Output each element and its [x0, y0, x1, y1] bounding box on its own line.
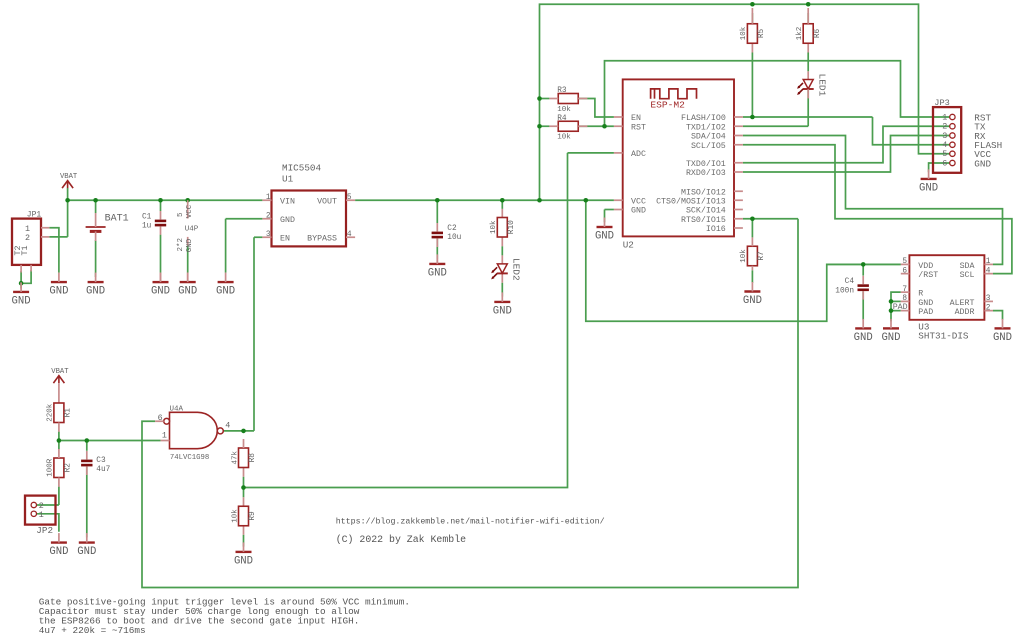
wire C1 to GND [160, 235, 162, 273]
wire top rail to R5 [751, 13, 753, 24]
svg-text:JP2: JP2 [36, 525, 53, 536]
svg-text:RTS0/IO15: RTS0/IO15 [681, 215, 726, 225]
svg-text:10k: 10k [490, 220, 498, 234]
svg-text:CTS0/MOSI/IO13: CTS0/MOSI/IO13 [656, 196, 726, 206]
wire JP3 pin6 to GND [929, 163, 950, 172]
pin R10 top [501, 209, 503, 218]
junction R5 top [750, 2, 755, 7]
pin U2 GND [614, 209, 623, 211]
pin R6 bottom [807, 43, 809, 52]
connector JP2 [25, 496, 56, 525]
pin R4 right [578, 125, 587, 127]
svg-text:C4: C4 [845, 278, 855, 286]
svg-text:FLASH/IO0: FLASH/IO0 [681, 113, 726, 123]
svg-text:TXD0/IO1: TXD0/IO1 [686, 159, 726, 169]
svg-text:GND: GND [854, 332, 873, 344]
resistor R7 [740, 246, 766, 266]
junction C1 [158, 198, 163, 203]
svg-text:C3: C3 [96, 457, 106, 465]
pin U1.2 GND [262, 218, 271, 220]
svg-text:220k: 220k [47, 403, 55, 422]
pin R8 bottom [243, 468, 245, 477]
svg-text:4u7 + 220k = ~716ms: 4u7 + 220k = ~716ms [39, 625, 146, 636]
svg-text:10k: 10k [557, 106, 571, 114]
wire net SDA U2 to U3 [743, 136, 1003, 265]
svg-text:2*2: 2*2 [177, 238, 185, 252]
svg-text:C1: C1 [142, 213, 152, 221]
svg-text:GND: GND [49, 546, 68, 558]
junction U3 pin8 [889, 299, 894, 304]
svg-text:GND: GND [280, 216, 295, 225]
wire rail to BAT1 [95, 200, 97, 213]
svg-text:U4A: U4A [170, 405, 184, 413]
svg-text:4u7: 4u7 [96, 466, 110, 474]
wire JP1 pin2 to rail riser [49, 236, 67, 238]
resistor R6 [796, 24, 822, 44]
svg-text:T1: T1 [20, 245, 30, 255]
svg-text:1: 1 [39, 510, 44, 520]
svg-text:PAD: PAD [918, 308, 933, 317]
wire R10 to LED2 [501, 246, 503, 255]
wire net VCC top loop to JP3 pin5 [540, 4, 950, 200]
junction VBAT rail / arrow [65, 198, 70, 203]
ground JP3 [919, 169, 938, 194]
svg-text:PAD: PAD [893, 303, 908, 312]
pin R6 top [807, 8, 809, 24]
svg-text:GND: GND [12, 296, 31, 308]
junction JP1 gnd pins [19, 281, 24, 286]
LED LED2 [491, 258, 522, 281]
pin C1 gnd lead [160, 273, 162, 283]
wire R4 to U2 RST [578, 125, 614, 127]
svg-text:(C) 2022 by Zak Kemble: (C) 2022 by Zak Kemble [336, 534, 466, 545]
svg-text:10k: 10k [740, 26, 748, 40]
wire C3 to GND [86, 467, 88, 538]
svg-text:SDA/IO4: SDA/IO4 [691, 132, 726, 142]
pin R5 bottom [751, 43, 753, 52]
wire U3 PAD [891, 310, 901, 312]
wire C4 to GND [862, 291, 864, 320]
ground C2 [428, 254, 447, 279]
pin U3 ADDR [984, 310, 993, 312]
junction R3 [537, 96, 542, 101]
ground C4 [854, 319, 873, 344]
svg-text:LED1: LED1 [817, 73, 828, 96]
svg-text:https://blog.zakkemble.net/mai: https://blog.zakkemble.net/mail-notifier… [336, 516, 605, 526]
pin U2 IO16 [734, 227, 743, 229]
pin C1 bottom [160, 226, 162, 234]
wire R5 to FLASH [751, 53, 753, 118]
pin U4A.1 [161, 440, 170, 442]
svg-text:ADC: ADC [631, 150, 646, 159]
junction R8/R9 ADC [241, 485, 246, 490]
pin R3 right [578, 98, 587, 100]
svg-text:2: 2 [266, 212, 271, 220]
pin JP3.5 [950, 151, 955, 156]
pin LED1 cathode [807, 89, 809, 98]
pin LED2 cathode [501, 274, 503, 283]
svg-text:R7: R7 [758, 251, 766, 261]
wire U2 GND pin [605, 209, 614, 211]
ground below JP1 [12, 282, 31, 307]
junction RTS0/R7 [750, 216, 755, 221]
pin JP3.2 [950, 124, 955, 129]
pin R7 top [751, 237, 753, 246]
svg-text:JP1: JP1 [27, 211, 42, 220]
svg-text:RST: RST [631, 123, 646, 132]
resistor R9 [231, 506, 257, 526]
pin JP3.3 [950, 133, 955, 138]
svg-text:R4: R4 [557, 115, 567, 123]
junction R6 top [806, 2, 811, 7]
wire net VCC rail [355, 199, 614, 201]
svg-text:R3: R3 [557, 87, 567, 95]
wire VDD to C4 [862, 264, 864, 275]
svg-text:R1: R1 [65, 408, 73, 418]
wire net ADC to divider [244, 153, 568, 488]
pin U4A.6 [155, 420, 164, 422]
pin U3 PAD [901, 310, 910, 312]
svg-text:R2: R2 [65, 463, 73, 473]
svg-text:1: 1 [162, 431, 167, 441]
connector JP1 [12, 219, 41, 265]
pin C4 bottom [862, 291, 864, 300]
svg-text:U2: U2 [623, 239, 634, 250]
pin C1 top [160, 211, 162, 220]
wire JP2 pin1 to GND [37, 514, 59, 532]
wire net VCC to U3 VDD [586, 200, 901, 321]
svg-text:C2: C2 [447, 225, 457, 233]
svg-text:GND: GND [919, 183, 938, 195]
wire JP1 pin1 to pin2 join [49, 228, 59, 237]
junction C2 [435, 198, 440, 203]
pin U3 SDA [984, 263, 993, 265]
ground C3 [77, 533, 96, 558]
wire R8 bottom to junction [243, 477, 245, 488]
ground JP2 [49, 533, 68, 558]
pin R5 top [751, 8, 753, 24]
wire U4A output [223, 430, 254, 432]
svg-text:6: 6 [942, 158, 947, 168]
wire R2 to JP2 [58, 487, 60, 505]
pin C4 top [862, 276, 864, 285]
wire JP2 pin2 [37, 504, 59, 506]
pin U2 RTS0/IO15 [734, 218, 743, 220]
svg-text:4: 4 [347, 231, 352, 239]
svg-text:1: 1 [986, 258, 991, 266]
wire net TXD0 to JP3 pin2 TX [743, 126, 950, 163]
wire net RXD0 to JP3 pin3 RX [743, 136, 950, 173]
pin C2 bottom [436, 238, 438, 247]
svg-text:SCK/IO14: SCK/IO14 [686, 206, 726, 216]
pin R3 left [549, 98, 558, 100]
svg-text:2: 2 [986, 304, 991, 312]
svg-text:VBAT: VBAT [51, 368, 69, 376]
pin U3 SCL [984, 273, 993, 275]
pin LED2 anode [501, 255, 503, 264]
wire junction to R9 [243, 488, 245, 498]
svg-text:5: 5 [902, 258, 907, 266]
resistor R8 [231, 448, 257, 468]
pin U2 SDA/IO4 [734, 135, 743, 137]
capacitor C1 [155, 220, 166, 227]
svg-text:IO16: IO16 [706, 225, 726, 234]
junction C4/VDD [861, 262, 866, 267]
resistor R5 [740, 24, 766, 44]
gate U4A 74LVC1G98 [164, 412, 224, 448]
pin U2 CTS0/MOSI/IO13 [734, 199, 743, 201]
svg-text:GND: GND [743, 295, 762, 307]
svg-text:GND: GND [881, 332, 900, 344]
svg-text:R5: R5 [758, 28, 766, 38]
pin R4 left [549, 125, 558, 127]
capacitor C2 [432, 232, 443, 239]
svg-text:GND: GND [595, 231, 614, 243]
junction BAT1 [93, 198, 98, 203]
pin C3 top [86, 451, 88, 460]
pin U1.5 VOUT [346, 199, 355, 201]
svg-text:VCC: VCC [631, 197, 646, 206]
antenna symbol ESP-M2 [651, 89, 697, 99]
pin U3 R [901, 291, 910, 293]
pin U1.4 BYPASS [346, 236, 355, 238]
svg-text:VBAT: VBAT [60, 173, 78, 181]
VBAT supply bottom [51, 368, 69, 383]
IC U3 SHT31-DIS box [909, 255, 984, 320]
pin R2 bottom [58, 478, 60, 487]
pin U2 ADC [614, 152, 623, 154]
svg-text:/RST: /RST [918, 270, 938, 280]
wire VCC to C2 [436, 200, 438, 223]
svg-text:1: 1 [266, 194, 271, 202]
wire net TXD1 to LED1 [743, 125, 808, 127]
svg-text:EN: EN [280, 234, 290, 243]
wire U3 R/GND/PAD chain [891, 292, 901, 321]
junction C3 [85, 438, 90, 443]
pin U2 SCK/IO14 [734, 209, 743, 211]
wire VBAT arrow to rail [67, 188, 69, 200]
wire U1 GND pin [226, 218, 263, 220]
wire R3 to U2 EN [578, 99, 614, 118]
svg-text:R10: R10 [508, 220, 516, 234]
svg-text:LED2: LED2 [511, 258, 522, 281]
svg-text:8: 8 [902, 295, 907, 303]
capacitor C4 [858, 284, 869, 291]
svg-text:VIN: VIN [280, 197, 295, 206]
wire C2 to GND [436, 238, 438, 258]
ground U3 left [881, 319, 900, 344]
svg-text:GND: GND [151, 286, 170, 298]
ground R7 [743, 282, 762, 307]
pin JP1.T2 [30, 265, 32, 272]
wire JP1 pins to GND [58, 237, 60, 273]
svg-text:BYPASS: BYPASS [307, 234, 337, 243]
wire R1 to junction [58, 432, 60, 441]
pin U2 VCC [614, 199, 623, 201]
junction R1/R2 [57, 438, 62, 443]
wire R7 to GND [751, 270, 753, 283]
pin U2 FLASH/IO0 [734, 116, 743, 118]
svg-text:GND: GND [631, 207, 646, 216]
svg-text:R6: R6 [814, 28, 822, 38]
pin JP1.T1 [20, 265, 22, 273]
pin JP3.4 [950, 142, 955, 147]
battery BAT1 [86, 213, 129, 241]
pin JP1.1 [41, 227, 49, 229]
wire R6 to LED1 [807, 53, 809, 72]
svg-text:GND: GND [49, 286, 68, 298]
svg-text:1u: 1u [142, 223, 152, 231]
junction U4P VCC [185, 198, 190, 203]
pin JP3.1 [950, 114, 955, 119]
pin R9 top [243, 497, 245, 506]
pin U2 MISO/IO12 [734, 190, 743, 192]
svg-text:GND: GND [86, 286, 105, 298]
wire LED1 to TXD1 row [807, 89, 809, 126]
connector JP3 [933, 107, 961, 173]
pin U3 /RST [901, 273, 910, 275]
ground U2 [595, 218, 614, 243]
svg-text:3: 3 [266, 231, 271, 239]
svg-text:6: 6 [902, 267, 907, 275]
svg-text:GND: GND [77, 546, 96, 558]
wire VDD row [827, 263, 901, 265]
svg-text:GND: GND [216, 286, 235, 298]
wire VBAT to R1 [58, 383, 60, 403]
svg-text:74LVC1G98: 74LVC1G98 [170, 454, 209, 462]
svg-text:5: 5 [347, 194, 352, 202]
wire U1 EN pin [254, 236, 262, 238]
svg-text:MISO/IO12: MISO/IO12 [681, 187, 726, 197]
svg-text:GND: GND [186, 238, 194, 252]
wire U4P GND pin down [187, 245, 189, 272]
svg-text:GND: GND [493, 306, 512, 318]
pin R8 top [243, 439, 245, 448]
svg-text:10u: 10u [447, 234, 461, 242]
svg-text:10k: 10k [740, 249, 748, 263]
ground BAT1 [86, 273, 105, 298]
resistor R4 [557, 115, 578, 142]
svg-text:10k: 10k [557, 134, 571, 142]
junction U3 PAD [889, 308, 894, 313]
junction R4 [537, 124, 542, 129]
svg-text:GND: GND [974, 158, 991, 169]
power pins U4P [177, 200, 199, 282]
resistor R1 [47, 403, 73, 423]
svg-text:5: 5 [177, 212, 185, 217]
wire FLASH to JP3 pin4 [873, 117, 950, 145]
svg-text:100R: 100R [47, 458, 55, 477]
svg-text:2: 2 [25, 233, 30, 243]
wire net IO15 loop to U4A pin6 [142, 219, 798, 588]
wire net RST to JP3 pin1 [605, 61, 950, 127]
svg-text:3: 3 [986, 295, 991, 303]
junction R10 [500, 198, 505, 203]
wire junction to R2 [58, 441, 60, 450]
pin U1.1 VIN [262, 199, 271, 201]
svg-text:R: R [918, 290, 923, 299]
wire JP1 pinT1 down [20, 271, 22, 283]
pin C3 bottom [86, 466, 88, 475]
pin U2 TXD1/IO2 [734, 125, 743, 127]
wire net VBAT rail [68, 199, 263, 201]
pin U2 RXD0/IO3 [734, 171, 743, 173]
resistor R3 [557, 87, 578, 114]
svg-text:SCL/IO5: SCL/IO5 [691, 141, 726, 151]
svg-text:ESP-M2: ESP-M2 [650, 100, 685, 111]
pin U3 GND [901, 300, 910, 302]
capacitor C3 [81, 460, 92, 467]
pin LED1 anode [807, 71, 809, 79]
svg-text:SCL: SCL [960, 271, 975, 280]
svg-text:ADDR: ADDR [955, 308, 975, 317]
wire U3 ADDR to GND [993, 311, 1003, 320]
junction FLASH/R5 [750, 115, 755, 120]
ground U3 ADDR [993, 319, 1012, 344]
wire to R3 left [540, 98, 550, 100]
svg-text:1k2: 1k2 [796, 27, 804, 41]
wire to R4 left [540, 125, 550, 127]
wire rail to C1 [160, 200, 162, 211]
pin C2 top [436, 223, 438, 232]
wire net GATE input row [59, 440, 161, 442]
ground U1 [216, 273, 235, 298]
pin JP1.2 [41, 236, 49, 238]
svg-text:U1: U1 [282, 173, 294, 184]
wire RTS0 out [743, 218, 798, 220]
IC U1 MIC5504 box [272, 191, 347, 247]
IC U2 ESP-M2 box [623, 79, 734, 236]
pin U2 EN [614, 116, 623, 118]
svg-text:TXD1/IO2: TXD1/IO2 [686, 122, 726, 132]
wire R9 to GND [243, 535, 245, 547]
ground JP1 pins 1-2 [49, 273, 68, 298]
pin R7 bottom [751, 266, 753, 271]
resistor R10 [490, 218, 516, 238]
svg-text:MIC5504: MIC5504 [282, 162, 321, 173]
svg-text:100n: 100n [835, 287, 854, 295]
svg-text:BAT1: BAT1 [105, 214, 129, 225]
svg-text:GND: GND [993, 332, 1012, 344]
junction RST net [602, 124, 607, 129]
wire junction to C3 [86, 441, 88, 451]
ground LED2 [493, 292, 512, 317]
pin U3 VDD [901, 263, 910, 265]
LED LED1 [797, 73, 828, 96]
svg-text:6: 6 [158, 413, 163, 423]
ground U4P [178, 273, 197, 298]
wire BAT1 to GND [95, 240, 97, 277]
resistor R2 [47, 458, 73, 478]
junction VCC riser [537, 198, 542, 203]
svg-text:RXD0/IO3: RXD0/IO3 [686, 168, 726, 178]
ground R9 [234, 542, 253, 567]
svg-text:47k: 47k [231, 450, 239, 464]
svg-text:U4P: U4P [185, 225, 199, 233]
wire net FLASH horizontal [743, 116, 873, 118]
svg-text:VOUT: VOUT [317, 197, 337, 206]
wire net SCL U2 to U3 [743, 145, 1012, 274]
ground C1 [151, 273, 170, 298]
wire EN net vertical [253, 237, 255, 431]
wire JP1 pinT2 down [21, 270, 31, 283]
svg-text:4: 4 [225, 420, 230, 430]
svg-text:GND: GND [428, 268, 447, 280]
wire U2 GND drop [604, 210, 606, 223]
pin C2 gnd lead [436, 259, 438, 264]
svg-text:ALERT: ALERT [950, 299, 975, 308]
VBAT supply top [60, 173, 78, 188]
